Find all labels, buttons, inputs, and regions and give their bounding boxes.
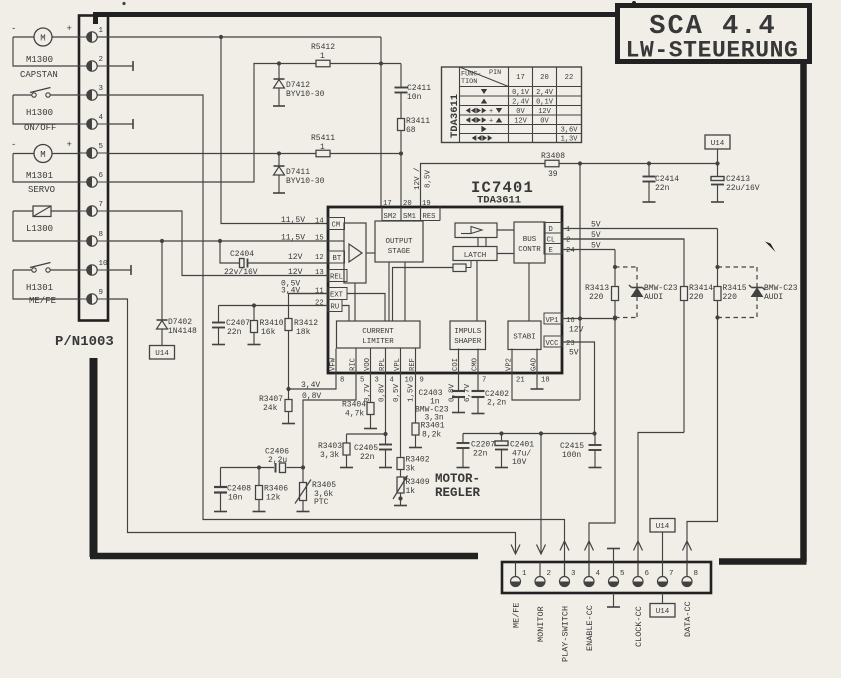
wire pin1 to SM2 column <box>97 35 381 39</box>
diode D7411 BYV10-30 <box>273 154 325 194</box>
wire RIC to C2406 node <box>303 373 356 468</box>
svg-text:1: 1 <box>566 226 570 234</box>
capacitor C2407 <box>212 306 250 345</box>
svg-text:3,3n: 3,3n <box>425 414 444 423</box>
box U14 below pin7 <box>650 593 675 617</box>
label 12V / 8,5V <box>414 167 433 190</box>
resistor R3404 <box>342 373 377 429</box>
IC left pin REL <box>281 268 347 289</box>
svg-text:REL: REL <box>330 274 343 282</box>
svg-text:11,5V: 11,5V <box>281 216 305 225</box>
svg-text:BYV10-30: BYV10-30 <box>286 90 325 99</box>
svg-text:SM2: SM2 <box>384 213 397 221</box>
svg-text:6,7V: 6,7V <box>464 383 472 402</box>
svg-text:11: 11 <box>315 288 324 296</box>
svg-text:3: 3 <box>99 85 104 93</box>
capacitor C2415 <box>560 434 602 468</box>
svg-text:+: + <box>489 108 493 116</box>
svg-text:2,2u: 2,2u <box>268 456 287 465</box>
wire RES to R3408 node <box>421 164 546 208</box>
svg-text:R3411: R3411 <box>406 117 430 126</box>
svg-text:STABI: STABI <box>513 334 536 342</box>
wire pin3 to PLAY-SWITCH <box>97 95 565 576</box>
svg-text:8,5V: 8,5V <box>425 169 433 188</box>
svg-text:4: 4 <box>390 377 394 385</box>
svg-text:10: 10 <box>99 260 109 268</box>
svg-text:IMPULS: IMPULS <box>454 328 482 336</box>
svg-text:SHAPER: SHAPER <box>454 338 482 346</box>
resistor R3415 <box>714 284 747 320</box>
resistor R3403 <box>318 434 353 468</box>
IC internal wire bus to stabi <box>528 263 530 321</box>
label MOTOR-REGLER <box>435 472 481 500</box>
svg-text:R3410: R3410 <box>260 319 284 328</box>
resistor R3406 <box>253 468 289 512</box>
IC OUTPUT STAGE block <box>375 221 423 262</box>
svg-text:24k: 24k <box>263 404 278 413</box>
svg-text:0,1V: 0,1V <box>512 89 530 97</box>
svg-text:4: 4 <box>99 114 104 122</box>
resistor R3412 <box>285 294 328 392</box>
wire SM1 column <box>400 154 402 208</box>
label CLOCK-CC <box>634 606 644 647</box>
svg-text:DATA-CC: DATA-CC <box>683 601 693 637</box>
svg-text:EXT: EXT <box>330 292 344 300</box>
svg-text:U14: U14 <box>656 523 670 531</box>
svg-text:3: 3 <box>375 377 379 385</box>
thermistor R3405 PTC <box>295 468 336 512</box>
wire R3408 to U14 node <box>560 161 720 165</box>
svg-text:2,4V: 2,4V <box>512 99 530 107</box>
svg-text:VCC: VCC <box>546 340 560 348</box>
arrow into DATA-CC <box>683 541 692 551</box>
svg-text:COI: COI <box>452 358 460 371</box>
IC left pin BT <box>288 251 345 263</box>
label DATA-CC <box>683 601 693 637</box>
label TDA3611 <box>477 195 521 207</box>
wire H1300 to pins 3,4 <box>13 95 79 124</box>
resistor R5411 <box>311 134 335 157</box>
wire D to R3415 column <box>715 229 719 287</box>
svg-text:22: 22 <box>565 74 574 82</box>
IC right pin CL <box>544 231 684 245</box>
label MONITOR <box>536 606 546 642</box>
arrow into CLOCK-CC <box>634 541 643 551</box>
IC right pin E <box>544 242 615 256</box>
svg-text:VFW: VFW <box>330 357 338 371</box>
resistor R3414 <box>681 284 714 433</box>
svg-text:VPL: VPL <box>394 358 402 371</box>
wire pin6 to R5412 line <box>108 64 316 183</box>
svg-text:6: 6 <box>99 172 104 180</box>
connector CC pins 1-8 <box>511 562 699 587</box>
IC internal wires output stage down <box>389 262 405 321</box>
zener BMW-C23 AUDI right <box>718 267 798 318</box>
svg-text:ENABLE-CC: ENABLE-CC <box>585 605 595 651</box>
svg-text:100n: 100n <box>562 451 581 460</box>
svg-text:PIN: PIN <box>489 69 501 77</box>
motor M1300 CAPSTAN <box>11 24 72 80</box>
svg-text:2,4V: 2,4V <box>536 89 554 97</box>
svg-text:7: 7 <box>669 570 674 578</box>
svg-text:R3408: R3408 <box>541 152 565 161</box>
svg-text:1,5V: 1,5V <box>408 383 416 402</box>
svg-text:C2414: C2414 <box>655 175 679 184</box>
svg-text:R5411: R5411 <box>311 134 335 143</box>
svg-text:M: M <box>40 34 45 44</box>
svg-text:5V: 5V <box>591 242 601 251</box>
border frame bottom-right segment <box>719 558 807 565</box>
wire M1300 to pins 1,2 <box>13 37 79 66</box>
svg-text:LIMITER: LIMITER <box>362 338 394 346</box>
svg-text:68: 68 <box>406 126 416 135</box>
svg-text:0V: 0V <box>516 108 525 116</box>
ground GAD pin18 <box>531 373 544 389</box>
IC internal wire latch to impuls <box>476 261 478 322</box>
wire pin5 to R5411 <box>108 151 316 155</box>
svg-text:12V: 12V <box>538 108 551 116</box>
wire pin9 to ME/FE <box>108 299 516 554</box>
IC right pin D <box>544 221 718 235</box>
svg-text:8,2k: 8,2k <box>422 431 441 440</box>
diode D7412 BYV10-30 <box>273 61 325 106</box>
svg-text:ME/FE: ME/FE <box>29 296 56 306</box>
svg-text:22: 22 <box>315 300 324 308</box>
svg-text:18: 18 <box>541 377 550 385</box>
svg-text:M: M <box>40 150 45 160</box>
svg-text:21: 21 <box>516 377 525 385</box>
wire VFW to R3412 node <box>289 373 337 401</box>
svg-text:R3412: R3412 <box>294 319 318 328</box>
svg-text:C2407: C2407 <box>226 319 250 328</box>
box U14 top right <box>705 135 730 164</box>
svg-text:C2207: C2207 <box>471 441 495 450</box>
svg-text:R3415: R3415 <box>723 284 747 293</box>
wire pin7 to REL <box>108 211 328 276</box>
trimmer R3409 <box>393 470 430 506</box>
svg-text:D7402: D7402 <box>168 318 192 327</box>
svg-text:22u/16V: 22u/16V <box>726 184 760 193</box>
svg-text:5: 5 <box>620 570 625 578</box>
svg-text:12V /: 12V / <box>414 167 422 190</box>
svg-text:19: 19 <box>422 200 431 208</box>
svg-text:CLOCK-CC: CLOCK-CC <box>634 606 644 647</box>
svg-text:C2404: C2404 <box>230 250 254 259</box>
IC internal wire buffer to limiter <box>354 283 356 321</box>
capacitor C2404 <box>220 241 328 277</box>
svg-text:R3409: R3409 <box>406 478 430 487</box>
IC buffer amplifier <box>328 223 375 283</box>
svg-text:12: 12 <box>315 254 324 262</box>
label ENABLE-CC <box>585 605 595 651</box>
wire R5412 to SM2 <box>330 61 401 65</box>
svg-text:10: 10 <box>405 377 414 385</box>
pin5 stub top <box>607 549 620 563</box>
svg-text:AUDI: AUDI <box>644 293 663 302</box>
wire MONITOR <box>540 434 542 555</box>
svg-text:VP2: VP2 <box>506 358 514 371</box>
svg-text:RES: RES <box>423 213 436 221</box>
svg-text:2: 2 <box>99 56 104 64</box>
svg-text:15: 15 <box>315 235 324 243</box>
capacitor C2413 <box>711 164 760 203</box>
svg-text:U14: U14 <box>656 608 670 616</box>
svg-text:+: + <box>489 118 493 126</box>
svg-text:4,7k: 4,7k <box>345 410 364 419</box>
wire H1301 to pins 10,9 <box>13 270 79 299</box>
svg-text:12k: 12k <box>266 494 281 503</box>
svg-text:LW-STEUERUNG: LW-STEUERUNG <box>626 38 799 64</box>
svg-text:8: 8 <box>694 570 699 578</box>
svg-text:1: 1 <box>99 27 104 35</box>
svg-text:R3413: R3413 <box>585 284 609 293</box>
IC STABI block <box>508 321 541 350</box>
svg-text:TDA3611: TDA3611 <box>477 195 521 207</box>
wire pin4 stub <box>108 119 133 129</box>
svg-text:2: 2 <box>566 237 570 245</box>
IC wires comparator-latch-bus <box>478 230 514 254</box>
svg-text:H1301: H1301 <box>26 283 53 293</box>
svg-text:11,5V: 11,5V <box>281 234 305 243</box>
svg-text:TDA3611: TDA3611 <box>449 94 461 138</box>
scan artifact arrow mark <box>765 242 776 253</box>
svg-text:RPL: RPL <box>379 358 387 371</box>
wire pin10 stub <box>108 265 131 275</box>
svg-text:1,3V: 1,3V <box>561 136 579 144</box>
label P/N1003 <box>55 334 114 350</box>
connector P/N1003 body <box>79 16 108 321</box>
IC LATCH block <box>453 247 497 261</box>
svg-text:C2415: C2415 <box>560 442 584 451</box>
arrow into MONITOR <box>537 545 546 555</box>
svg-text:0,5V: 0,5V <box>393 383 401 402</box>
svg-text:14: 14 <box>315 218 324 226</box>
wire VP2 to VP1 column <box>512 373 580 400</box>
svg-text:8: 8 <box>99 231 104 239</box>
svg-text:0V: 0V <box>540 118 549 126</box>
svg-text:5V: 5V <box>591 221 601 230</box>
wire pin2 stub <box>108 61 133 71</box>
motor M1301 SERVO <box>11 140 72 195</box>
svg-text:0,1V: 0,1V <box>536 99 554 107</box>
svg-text:CM: CM <box>332 222 341 230</box>
label IC7401 <box>471 179 534 197</box>
svg-text:9: 9 <box>420 377 424 385</box>
wire 5V rail <box>463 431 597 435</box>
svg-text:E: E <box>549 247 553 255</box>
svg-text:10n: 10n <box>228 494 243 503</box>
capacitor C2405 <box>354 444 392 468</box>
IC internal wire smallbox to limiter <box>393 268 454 322</box>
label ME/FE <box>512 602 522 628</box>
svg-text:9: 9 <box>99 289 104 297</box>
op-amp U1 IC7401 TDA3611 body <box>328 207 562 373</box>
svg-text:12V: 12V <box>288 253 303 262</box>
svg-text:1N4148: 1N4148 <box>168 327 197 336</box>
svg-text:BUS: BUS <box>523 236 537 244</box>
box U14 left <box>150 346 175 360</box>
svg-text:R3407: R3407 <box>259 395 283 404</box>
svg-text:22n: 22n <box>473 450 488 459</box>
svg-text:U14: U14 <box>155 350 169 358</box>
svg-text:M1300: M1300 <box>26 55 53 65</box>
svg-text:R3405: R3405 <box>312 481 336 490</box>
capacitor C2402 <box>472 373 510 414</box>
label C2403 <box>415 389 449 423</box>
svg-text:REGLER: REGLER <box>435 486 481 500</box>
border frame right line <box>800 60 807 562</box>
IC internal wire ru <box>342 306 349 322</box>
svg-text:SM1: SM1 <box>403 213 416 221</box>
arrow into ENABLE-CC <box>585 541 594 551</box>
wire ENABLE-CC <box>589 318 615 577</box>
capacitor C2207 <box>457 434 496 468</box>
svg-text:BT: BT <box>333 255 342 263</box>
table TDA3611 function/pin <box>442 67 582 144</box>
svg-text:3,3k: 3,3k <box>320 451 339 460</box>
svg-text:R5412: R5412 <box>311 43 335 52</box>
capacitor C2406 <box>221 448 306 473</box>
svg-text:3,4V: 3,4V <box>301 381 320 390</box>
resistor R3411 <box>398 117 431 154</box>
svg-text:220: 220 <box>723 293 738 302</box>
svg-text:+: + <box>67 24 72 34</box>
IC left pin EXT <box>281 287 347 300</box>
wire L1300 to pins 7,8 <box>13 211 79 241</box>
svg-text:CAPSTAN: CAPSTAN <box>20 70 58 80</box>
svg-text:18k: 18k <box>296 328 311 337</box>
arrow into ME/FE <box>511 545 520 555</box>
svg-text:L1300: L1300 <box>26 224 53 234</box>
resistor R3402 <box>397 373 430 474</box>
svg-text:20: 20 <box>403 200 412 208</box>
svg-text:D7411: D7411 <box>286 168 310 177</box>
svg-text:1k: 1k <box>406 487 416 496</box>
diode D7402 1N4148 <box>157 241 198 346</box>
IC small box under latch <box>453 261 471 272</box>
wire RPL node <box>347 373 388 444</box>
connector P/N1003 pins 1-10 <box>79 27 108 304</box>
svg-text:BMW-C23: BMW-C23 <box>764 284 798 293</box>
svg-text:R3403: R3403 <box>318 442 342 451</box>
svg-text:R3404: R3404 <box>342 401 366 410</box>
svg-text:5: 5 <box>99 143 104 151</box>
svg-text:22n: 22n <box>227 328 242 337</box>
svg-text:17: 17 <box>516 74 525 82</box>
svg-text:H1300: H1300 <box>26 108 53 118</box>
resistor R3407 <box>259 389 295 424</box>
capacitor C2411 <box>395 64 432 119</box>
svg-text:CURRENT: CURRENT <box>362 328 394 336</box>
svg-text:SERVO: SERVO <box>28 185 55 195</box>
svg-text:D7412: D7412 <box>286 81 310 90</box>
svg-text:5: 5 <box>360 377 364 385</box>
border frame top line <box>93 15 617 25</box>
svg-text:3,4V: 3,4V <box>281 287 300 296</box>
IC CURRENT LIMITER block <box>337 321 421 348</box>
IC IMPULS SHAPER block <box>450 321 486 350</box>
svg-text:22n: 22n <box>655 184 670 193</box>
svg-text:REF: REF <box>409 358 417 371</box>
svg-text:17: 17 <box>383 200 392 208</box>
capacitor C2414 <box>643 164 680 203</box>
svg-text:U14: U14 <box>711 140 725 148</box>
svg-text:10V: 10V <box>512 458 527 467</box>
svg-text:RU: RU <box>331 304 340 312</box>
svg-text:220: 220 <box>589 293 604 302</box>
svg-text:RIC: RIC <box>350 357 358 371</box>
svg-text:3: 3 <box>571 570 576 578</box>
resistor R5412 <box>311 43 335 67</box>
resistor R3413 <box>585 284 619 320</box>
wire CLOCK-CC <box>638 433 684 577</box>
svg-text:M1301: M1301 <box>26 171 53 181</box>
wire DATA-CC <box>687 318 718 577</box>
IC left pin RU <box>219 300 343 312</box>
svg-text:CMO: CMO <box>472 358 480 371</box>
IC internal wire ext <box>347 294 385 322</box>
svg-text:MONITOR: MONITOR <box>536 606 546 642</box>
zener BMW-C23 AUDI left <box>615 267 678 318</box>
wire E to R3413 column <box>613 250 617 287</box>
svg-text:OUTPUT: OUTPUT <box>385 238 413 246</box>
svg-text:+: + <box>67 140 72 150</box>
svg-text:10n: 10n <box>407 93 422 102</box>
svg-text:BYV10-30: BYV10-30 <box>286 177 325 186</box>
scan speck top left <box>122 2 125 5</box>
resistor R3408 <box>541 152 565 179</box>
svg-text:12V: 12V <box>514 118 527 126</box>
svg-text:16k: 16k <box>261 328 276 337</box>
svg-text:7: 7 <box>482 377 486 385</box>
svg-text:8: 8 <box>340 377 344 385</box>
svg-text:C2401: C2401 <box>510 441 534 450</box>
switch H1301 ME/FE <box>26 263 56 307</box>
border frame bottom-left segment <box>90 553 478 560</box>
svg-text:24: 24 <box>566 247 575 255</box>
label PLAY-SWITCH <box>561 606 571 662</box>
svg-text:20: 20 <box>540 74 549 82</box>
svg-text:0,8V: 0,8V <box>449 383 457 402</box>
svg-text:R3414: R3414 <box>689 284 713 293</box>
pin5 stub bottom <box>607 593 620 607</box>
svg-text:R3401: R3401 <box>421 422 445 431</box>
IC left pin 15 wire <box>108 234 328 244</box>
svg-text:VP1: VP1 <box>546 317 559 325</box>
IC left pin CM <box>281 216 345 230</box>
IC bottom pin stubs and labels <box>330 349 550 385</box>
switch H1300 ON/OFF <box>24 88 56 134</box>
svg-text:R3402: R3402 <box>406 456 430 465</box>
IC comparator cell <box>455 223 497 238</box>
wire M1301 to pins 5,6 <box>13 154 79 183</box>
svg-text:220: 220 <box>689 293 704 302</box>
connector CC body <box>502 562 711 593</box>
wire R5411 to SM1 <box>330 151 403 155</box>
svg-text:2: 2 <box>547 570 552 578</box>
IC BUS CONTR block <box>514 222 545 263</box>
wire VP1 column <box>579 164 581 401</box>
border frame left thick bar <box>90 358 98 557</box>
svg-text:12V: 12V <box>288 268 303 277</box>
svg-text:PTC: PTC <box>314 498 329 507</box>
svg-text:5V: 5V <box>569 349 579 358</box>
wire SM2 column <box>380 37 382 207</box>
svg-text:6: 6 <box>645 570 650 578</box>
IC right pin VP1 <box>544 313 617 335</box>
resistor R3401 <box>409 373 445 448</box>
IC top pin cells SM2 SM1 RES <box>382 200 440 221</box>
